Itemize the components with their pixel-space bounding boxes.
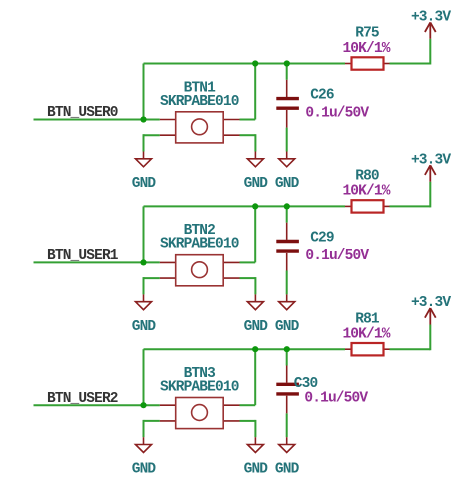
svg-text:10K/1%: 10K/1% [342,184,390,200]
svg-text:BTN_USER0: BTN_USER0 [47,105,118,121]
svg-text:+3.3V: +3.3V [411,10,451,26]
svg-text:GND: GND [244,462,269,478]
svg-text:10K/1%: 10K/1% [342,41,390,57]
svg-text:GND: GND [275,176,300,192]
svg-text:0.1u/50V: 0.1u/50V [304,391,368,407]
svg-text:C30: C30 [294,376,318,392]
svg-text:GND: GND [275,319,300,335]
svg-text:SKRPABE010: SKRPABE010 [160,237,239,253]
svg-text:SKRPABE010: SKRPABE010 [160,380,239,396]
svg-text:R75: R75 [355,26,379,42]
svg-text:BTN_USER1: BTN_USER1 [47,248,119,264]
svg-text:GND: GND [132,176,157,192]
svg-text:R80: R80 [355,169,379,185]
svg-text:0.1u/50V: 0.1u/50V [305,105,369,121]
svg-text:R81: R81 [355,311,380,327]
svg-text:C26: C26 [310,87,334,103]
svg-text:GND: GND [132,462,157,478]
svg-text:0.1u/50V: 0.1u/50V [305,248,369,264]
svg-text:+3.3V: +3.3V [411,152,451,168]
svg-text:10K/1%: 10K/1% [342,327,390,343]
svg-text:GND: GND [244,176,269,192]
svg-text:SKRPABE010: SKRPABE010 [160,94,239,110]
svg-text:C29: C29 [310,230,334,246]
svg-text:BTN_USER2: BTN_USER2 [47,391,118,407]
svg-text:GND: GND [244,319,269,335]
svg-text:GND: GND [275,462,300,478]
svg-text:+3.3V: +3.3V [411,295,451,311]
svg-text:GND: GND [132,319,157,335]
